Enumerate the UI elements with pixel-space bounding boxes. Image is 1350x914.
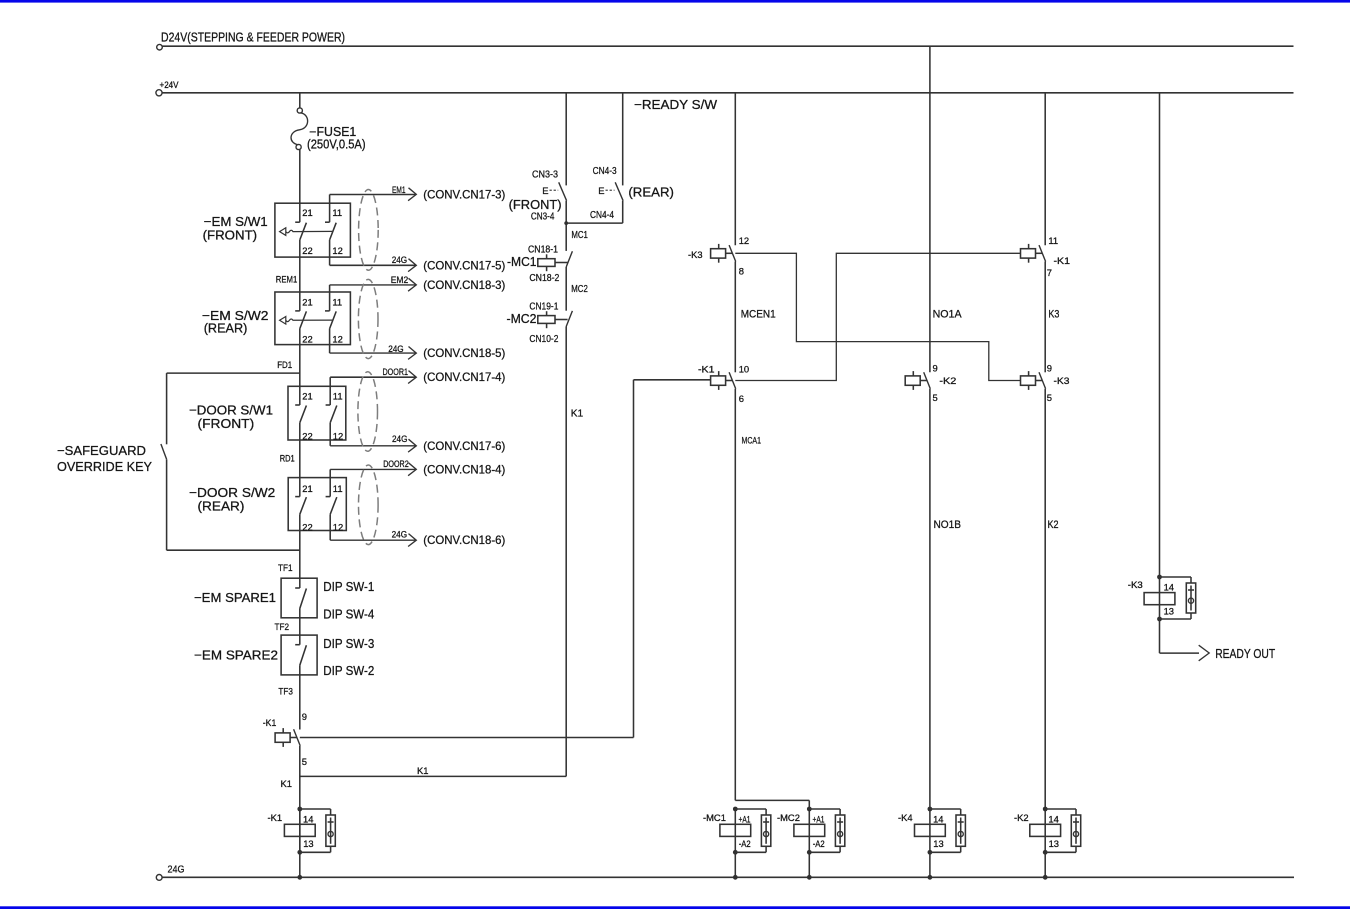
- svg-text:5: 5: [1047, 392, 1052, 403]
- svg-text:12: 12: [739, 235, 749, 246]
- wire EM2 out: [329, 285, 331, 311]
- svg-text:(CONV.CN18-3): (CONV.CN18-3): [423, 278, 505, 292]
- switch DOOR S/W2 body: [288, 478, 346, 531]
- svg-text:D24V(STEPPING & FEEDER POWER): D24V(STEPPING & FEEDER POWER): [161, 31, 345, 45]
- cable screen EM S/W1: [359, 190, 379, 271]
- switch EM S/W1 body: [275, 203, 351, 257]
- svg-text:CN18-2: CN18-2: [529, 273, 559, 284]
- switch SAFEGUARD OVERRIDE KEY: [166, 373, 168, 444]
- wire EM1 out: [329, 195, 331, 223]
- svg-text:TF2: TF2: [275, 621, 290, 632]
- junction K4 column at 24G rail: [928, 875, 933, 880]
- cable screen DOOR S/W1: [358, 372, 378, 452]
- svg-text:24G: 24G: [392, 434, 408, 444]
- svg-text:-K3: -K3: [1128, 579, 1143, 590]
- svg-text:6: 6: [739, 393, 744, 404]
- svg-text:CN3-3: CN3-3: [532, 170, 558, 181]
- rail 24G: [162, 876, 1294, 878]
- svg-text:12: 12: [332, 334, 342, 345]
- svg-text:CN3-4: CN3-4: [531, 212, 555, 223]
- svg-text:-MC2: -MC2: [777, 812, 800, 823]
- svg-text:12: 12: [333, 522, 343, 533]
- svg-text:−DOOR S/W2: −DOOR S/W2: [189, 485, 275, 500]
- svg-text:24G: 24G: [388, 344, 404, 354]
- svg-text:7: 7: [1047, 267, 1052, 278]
- wire MC2 branch split: [735, 799, 809, 801]
- svg-text:NO1A: NO1A: [933, 309, 963, 321]
- svg-text:9: 9: [933, 362, 938, 373]
- junction CN3-4/CN4-4: [564, 221, 568, 225]
- relay coil -MC2 with suppressor: [808, 809, 810, 852]
- svg-text:K2: K2: [1048, 519, 1059, 531]
- wire EM S/W2 to DOOR S/W1, node FD1: [299, 329, 301, 405]
- switch EM S/W2 body: [275, 292, 351, 345]
- wire fuse to EM S/W1: [299, 150, 301, 223]
- blue top border: [0, 0, 1350, 3]
- svg-text:13: 13: [1164, 606, 1174, 617]
- svg-text:(CONV.CN17-5): (CONV.CN17-5): [423, 258, 505, 272]
- wire MCEN1 between contacts: [734, 262, 736, 373]
- svg-text:-K1: -K1: [1054, 255, 1071, 266]
- svg-text:(CONV.CN17-3): (CONV.CN17-3): [423, 188, 505, 202]
- svg-text:-A2: -A2: [813, 838, 825, 849]
- switch EM S/W1 contact 21-22: [295, 221, 300, 223]
- wire EM S/W1 to EM S/W2, node REM1: [299, 240, 301, 311]
- svg-text:CN10-2: CN10-2: [529, 334, 558, 345]
- wire column K3 from +24V rail: [1044, 93, 1046, 246]
- svg-text:-K4: -K4: [898, 812, 913, 823]
- svg-text:10: 10: [739, 363, 749, 374]
- wire main column below K1 contact: [299, 746, 301, 878]
- svg-text:DIP SW-3: DIP SW-3: [323, 637, 374, 651]
- switch DOOR S/W1 body: [288, 386, 346, 440]
- svg-text:11: 11: [333, 483, 343, 494]
- svg-text:RD1: RD1: [280, 452, 295, 463]
- rail +24V: [162, 92, 1293, 94]
- svg-text:-K2: -K2: [939, 375, 956, 386]
- fuse FUSE1: [297, 108, 302, 113]
- wire K3 between contacts: [1044, 262, 1046, 373]
- relay coil -K3 with suppressor: [1159, 577, 1161, 619]
- wire right column from +24V rail: [1159, 93, 1161, 577]
- svg-text:K1: K1: [571, 409, 584, 420]
- svg-text:22: 22: [302, 334, 312, 345]
- svg-text:TF1: TF1: [278, 562, 293, 573]
- svg-text:−EM SPARE2: −EM SPARE2: [194, 647, 278, 662]
- svg-text:MCEN1: MCEN1: [741, 309, 776, 321]
- contact READY S/W front E: [559, 182, 567, 200]
- rail D24V terminal circle: [157, 44, 163, 50]
- contact -MC1 CN18: [566, 251, 572, 267]
- switch EM SPARE1 contact DIP SW-1/4: [295, 587, 300, 589]
- wire DOOR1 out: [329, 377, 331, 405]
- svg-text:CN19-1: CN19-1: [529, 301, 558, 312]
- svg-text:(REAR): (REAR): [628, 184, 674, 199]
- wire DOOR S/W2 to EM SPARE1, node TF1: [299, 514, 301, 588]
- junction MC1 column at 24G rail: [733, 875, 738, 880]
- svg-text:14: 14: [1164, 582, 1174, 593]
- EM S/W1 actuator: [280, 228, 286, 236]
- svg-text:(CONV.CN17-6): (CONV.CN17-6): [423, 439, 505, 453]
- svg-text:−READY S/W: −READY S/W: [634, 97, 718, 112]
- wire column MCEN1 from +24V rail: [734, 93, 736, 246]
- svg-text:(FRONT): (FRONT): [198, 416, 255, 431]
- svg-text:21: 21: [302, 390, 312, 401]
- wire 24G out of EM S/W1: [329, 240, 331, 265]
- cross link B: -K1 10/6 out to -K1 11/7 in: [735, 253, 1020, 380]
- svg-text:13: 13: [1049, 838, 1059, 849]
- svg-text:READY OUT: READY OUT: [1215, 646, 1275, 661]
- wire 24G out of DOOR S/W2: [329, 514, 331, 540]
- svg-text:FD1: FD1: [277, 359, 292, 370]
- svg-text:24G: 24G: [392, 255, 408, 265]
- svg-text:-MC1: -MC1: [703, 812, 726, 823]
- svg-text:CN4-3: CN4-3: [593, 166, 617, 177]
- rail +24V terminal circle: [156, 90, 162, 96]
- wire 24G out of EM S/W2: [329, 329, 331, 354]
- svg-text:9: 9: [302, 711, 307, 722]
- svg-text:+A1: +A1: [739, 813, 751, 824]
- svg-text:22: 22: [302, 522, 312, 533]
- svg-text:CN18-1: CN18-1: [528, 244, 558, 255]
- cable screen DOOR S/W2: [359, 465, 379, 545]
- svg-text:11: 11: [332, 207, 342, 218]
- svg-text:21: 21: [302, 483, 312, 494]
- svg-text:−EM SPARE1: −EM SPARE1: [194, 590, 276, 605]
- svg-text:MC2: MC2: [571, 284, 588, 295]
- svg-text:(FRONT): (FRONT): [509, 197, 562, 212]
- junction main column at 24G rail: [297, 875, 302, 880]
- svg-text:DOOR1: DOOR1: [383, 367, 409, 377]
- wire column K2 down to coil: [1044, 389, 1046, 809]
- svg-text:-A2: -A2: [739, 838, 751, 849]
- svg-text:TF3: TF3: [278, 685, 293, 696]
- svg-text:-K3: -K3: [1054, 375, 1070, 386]
- svg-text:K1: K1: [281, 778, 292, 789]
- contact READY S/W rear E: [615, 182, 623, 200]
- svg-text:9: 9: [1047, 362, 1052, 373]
- svg-text:14: 14: [1048, 813, 1058, 824]
- svg-text:-K1: -K1: [268, 812, 283, 823]
- cross link A: -K3 out to -K3 9/5 in: [735, 253, 1020, 380]
- svg-text:-MC1: -MC1: [507, 255, 537, 269]
- switch DOOR S/W1 contact 11-12: [326, 404, 331, 406]
- wire K1 contact output to right riser: [300, 737, 634, 739]
- wire CN4-4 down to junction: [622, 201, 624, 223]
- rail 24G terminal circle: [156, 875, 162, 881]
- svg-text:REM1: REM1: [276, 273, 298, 284]
- svg-text:DIP SW-1: DIP SW-1: [323, 580, 374, 594]
- svg-text:(CONV.CN18-5): (CONV.CN18-5): [423, 346, 505, 360]
- svg-text:22: 22: [302, 431, 312, 442]
- svg-text:-MC2: -MC2: [507, 312, 537, 326]
- wire DOOR2 out: [329, 469, 331, 496]
- svg-text:-K1: -K1: [698, 363, 715, 374]
- rail D24V (STEPPING & FEEDER POWER): [162, 45, 1293, 47]
- switch EM SPARE1 body: [281, 578, 317, 618]
- svg-text:13: 13: [933, 838, 943, 849]
- relay coil -K4 with suppressor: [929, 809, 931, 852]
- svg-text:5: 5: [302, 756, 307, 767]
- svg-text:(250V,0.5A): (250V,0.5A): [307, 137, 366, 151]
- wire main column +24V to fuse: [299, 93, 301, 108]
- wire safeguard top: [167, 372, 300, 374]
- svg-text:8: 8: [739, 266, 744, 277]
- svg-text:NO1B: NO1B: [934, 519, 962, 531]
- svg-text:(REAR): (REAR): [204, 320, 248, 335]
- svg-text:21: 21: [302, 207, 312, 218]
- svg-text:(CONV.CN18-4): (CONV.CN18-4): [423, 462, 505, 476]
- wire column NO1B down to coil: [929, 389, 931, 809]
- svg-text:-K3: -K3: [688, 249, 703, 260]
- relay coil -K2 with suppressor: [1044, 809, 1046, 852]
- wire 24G out of DOOR S/W1: [329, 423, 331, 446]
- svg-text:13: 13: [303, 838, 313, 849]
- svg-text:-K1: -K1: [263, 717, 277, 728]
- switch DOOR S/W2 contact 21-22: [295, 496, 300, 498]
- svg-text:MCA1: MCA1: [742, 435, 762, 446]
- svg-text:(CONV.CN18-6): (CONV.CN18-6): [423, 533, 505, 547]
- svg-text:14: 14: [303, 813, 313, 824]
- svg-text:K3: K3: [1048, 309, 1059, 321]
- svg-text:(FRONT): (FRONT): [203, 228, 258, 243]
- svg-text:12: 12: [333, 431, 343, 442]
- wire column K1 down to K1 net line: [565, 327, 567, 777]
- svg-text:12: 12: [332, 245, 342, 256]
- svg-text:24G: 24G: [392, 530, 408, 540]
- wire column NO1A from D24V rail: [929, 46, 931, 372]
- blue bottom border: [0, 906, 1350, 909]
- svg-text:21: 21: [302, 297, 312, 308]
- wire CN3-4 down to junction: [565, 201, 567, 251]
- relay coil -K1 with suppressor: [299, 809, 301, 852]
- switch DOOR S/W1 contact 21-22: [295, 404, 300, 406]
- wire column CN4 from +24V rail: [622, 93, 624, 186]
- wire column MCA1 down to coils: [734, 389, 736, 801]
- junction MC2 column at 24G rail: [807, 875, 812, 880]
- svg-text:11: 11: [1048, 235, 1058, 246]
- EM S/W2 actuator: [280, 317, 286, 325]
- switch EM S/W2 contact 11-12: [325, 310, 330, 312]
- svg-text:+24V: +24V: [160, 79, 180, 90]
- svg-text:11: 11: [332, 297, 342, 308]
- relay coil -MC1 with suppressor: [734, 809, 736, 852]
- switch EM SPARE2 body: [281, 635, 317, 675]
- svg-text:MC1: MC1: [571, 230, 588, 241]
- svg-text:14: 14: [933, 813, 943, 824]
- cable screen EM S/W2: [358, 279, 378, 358]
- wire READY OUT: [1159, 619, 1161, 653]
- svg-text:OVERRIDE KEY: OVERRIDE KEY: [57, 459, 152, 474]
- switch EM S/W1 contact 11-12: [325, 221, 330, 223]
- switch DOOR S/W2 contact 11-12: [326, 496, 331, 498]
- wire safeguard bottom: [167, 549, 300, 551]
- wire MC1 to MC2 contact: [565, 267, 567, 311]
- svg-text:11: 11: [333, 390, 343, 401]
- svg-text:EM2: EM2: [391, 275, 409, 285]
- wire EM SPARE1 to EM SPARE2, node TF2: [299, 609, 301, 645]
- svg-text:-K2: -K2: [1014, 812, 1029, 823]
- svg-text:(REAR): (REAR): [198, 499, 245, 514]
- wire node K1 to column K1: [300, 775, 566, 777]
- svg-text:−SAFEGUARD: −SAFEGUARD: [57, 443, 146, 458]
- svg-text:22: 22: [302, 245, 312, 256]
- svg-text:(CONV.CN17-4): (CONV.CN17-4): [423, 370, 505, 384]
- svg-text:EM1: EM1: [392, 185, 406, 195]
- svg-text:24G: 24G: [168, 864, 185, 875]
- svg-text:DIP SW-4: DIP SW-4: [323, 608, 374, 622]
- switch EM SPARE2 contact DIP SW-3/2: [295, 644, 300, 646]
- svg-text:DOOR2: DOOR2: [383, 459, 409, 469]
- svg-text:E: E: [598, 185, 604, 196]
- svg-text:5: 5: [933, 392, 938, 403]
- svg-text:DIP SW-2: DIP SW-2: [323, 664, 374, 678]
- svg-text:K1: K1: [417, 765, 428, 776]
- wire column CN3 from +24V rail: [565, 93, 567, 186]
- switch EM S/W2 contact 21-22: [295, 310, 300, 312]
- wire EM SPARE2 to K1 contact, node TF3: [299, 665, 301, 729]
- wire DOOR S/W1 to DOOR S/W2, node RD1: [299, 423, 301, 497]
- svg-text:E: E: [542, 185, 548, 196]
- junction K2 column at 24G rail: [1043, 875, 1048, 880]
- contact -MC2 CN19: [566, 311, 572, 327]
- svg-text:CN4-4: CN4-4: [590, 210, 614, 221]
- svg-text:+A1: +A1: [813, 813, 825, 824]
